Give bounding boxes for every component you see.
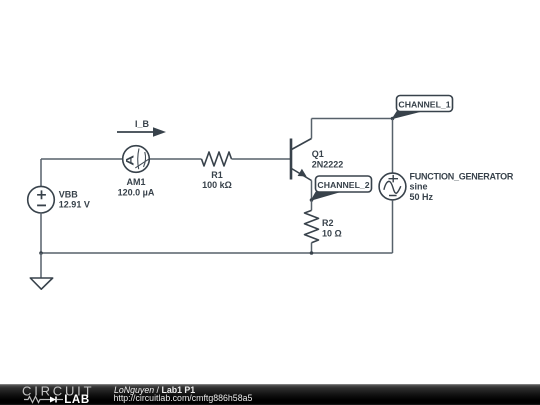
node junction R2 bottom: [310, 251, 314, 255]
wire VBB top vertical: [40, 159, 42, 187]
ground: [30, 253, 52, 289]
CircuitLab logo: [0, 384, 110, 405]
wire FG bottom vertical: [392, 200, 394, 253]
wire collector vertical: [311, 119, 313, 139]
voltage source VBB: [28, 186, 90, 213]
node junction top-right: [391, 117, 395, 121]
footer text line 1: [114, 386, 195, 395]
footer text line 2: [114, 394, 253, 403]
footer bar: [0, 384, 540, 405]
flag CHANNEL_1: [393, 96, 453, 119]
svg-text:A: A: [123, 155, 136, 166]
wire ammeter to R1: [150, 158, 202, 160]
svg-text:CHANNEL_2: CHANNEL_2: [317, 180, 369, 190]
svg-text:120.0 µA: 120.0 µA: [118, 187, 155, 197]
function generator V1: [379, 171, 514, 202]
svg-text:I_B: I_B: [135, 119, 150, 129]
resistor R2: [305, 200, 342, 253]
svg-text:10 Ω: 10 Ω: [322, 228, 342, 238]
node junction bottom-left: [39, 251, 43, 255]
svg-text:AM1: AM1: [126, 177, 145, 187]
svg-text:sine: sine: [410, 182, 428, 192]
svg-text:CHANNEL_1: CHANNEL_1: [398, 99, 450, 109]
svg-text:100 kΩ: 100 kΩ: [202, 180, 232, 190]
ammeter AM1: [118, 146, 155, 198]
wire FG top vertical: [392, 119, 394, 173]
current arrow I_B: [117, 119, 166, 137]
svg-text:Q1: Q1: [312, 149, 324, 159]
wire VBB bottom vertical: [40, 213, 42, 253]
wire top-left horizontal: [41, 158, 123, 160]
svg-text:50 Hz: 50 Hz: [410, 192, 434, 202]
svg-text:R2: R2: [322, 218, 334, 228]
wire R1 to Q1 base: [232, 158, 291, 160]
node junction emitter: [310, 198, 314, 202]
transistor Q1: [291, 139, 343, 181]
svg-text:R1: R1: [211, 170, 223, 180]
svg-text:LAB: LAB: [64, 394, 90, 405]
svg-text:2N2222: 2N2222: [312, 160, 344, 170]
wire emitter vertical: [311, 181, 313, 201]
svg-text:12.91 V: 12.91 V: [59, 200, 90, 210]
flag CHANNEL_2: [312, 176, 372, 200]
svg-text:FUNCTION_GENERATOR: FUNCTION_GENERATOR: [410, 171, 514, 181]
wire bottom rail: [41, 252, 393, 254]
resistor R1: [202, 152, 232, 190]
svg-text:VBB: VBB: [59, 189, 79, 199]
wire collector top horizontal: [312, 118, 393, 120]
